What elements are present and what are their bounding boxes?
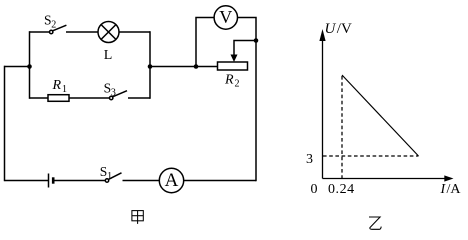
svg-text:0.24: 0.24 <box>328 182 355 197</box>
svg-text:V: V <box>219 7 232 27</box>
svg-text:3: 3 <box>111 88 116 99</box>
svg-text:L: L <box>104 48 113 63</box>
svg-text:/V: /V <box>337 21 352 37</box>
svg-text:2: 2 <box>235 79 240 90</box>
svg-text:2: 2 <box>51 19 56 30</box>
svg-text:0: 0 <box>311 182 318 197</box>
svg-text:3: 3 <box>306 152 313 167</box>
svg-text:1: 1 <box>62 84 67 95</box>
svg-text:A: A <box>165 170 179 191</box>
svg-text:U: U <box>325 21 337 37</box>
svg-text:/A: /A <box>447 182 462 197</box>
svg-text:R: R <box>224 73 234 88</box>
svg-text:1: 1 <box>107 171 112 182</box>
svg-text:R: R <box>52 78 62 93</box>
